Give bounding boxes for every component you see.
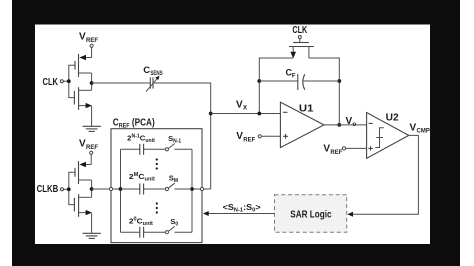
transistor PMOS (CLKB driver) (75, 161, 92, 184)
power V_REF (bottom, CLKB driver) (79, 139, 98, 165)
svg-text:REF: REF (330, 150, 342, 156)
svg-text:U2: U2 (386, 113, 399, 124)
power V_REF (top, CLK driver) (79, 32, 98, 58)
power V_REF (U1 non-inverting) (236, 131, 280, 143)
wire gate stem (CLKB driver) (69, 172, 75, 204)
wire CLK output to C_SENS (92, 82, 151, 84)
svg-text:V: V (236, 100, 243, 111)
ellipsis dots (rows 2-3) (156, 202, 158, 213)
SAR Logic block (275, 195, 347, 233)
wire PCA output to V_X (192, 188, 211, 190)
svg-text:V: V (79, 139, 86, 150)
capacitor C_F (259, 68, 339, 90)
switch S_(N-1) (row 1) (165, 134, 192, 151)
wire V_X to U1 inverting input (211, 113, 281, 115)
wire U2 output to SAR Logic (347, 135, 418, 216)
svg-text:X: X (243, 105, 247, 111)
wire right bus (PCA) (190, 149, 194, 232)
svg-text:REF: REF (243, 137, 255, 143)
svg-text:F: F (292, 73, 296, 79)
node output (CLK driver) (90, 73, 94, 90)
svg-text:CLK: CLK (43, 77, 59, 88)
svg-text:REF: REF (86, 145, 98, 151)
op-amp U1 (280, 102, 324, 148)
wire left bus (PCA) (119, 149, 123, 232)
node PCA left terminal (109, 187, 112, 190)
ground (CLK driver) (83, 106, 101, 132)
svg-text:REF: REF (86, 38, 98, 44)
wire CLKB output to PCA (92, 188, 121, 190)
wire feedback right branch (309, 58, 341, 127)
wire SAR Logic to PCA switches (203, 211, 275, 216)
comparator U2 (367, 113, 409, 159)
switch S_M (row 2) (165, 174, 192, 191)
svg-text:V: V (323, 144, 330, 155)
transistor NMOS (CLK driver) (74, 87, 92, 110)
node PCA right terminal (200, 187, 203, 190)
svg-text:V: V (236, 131, 243, 142)
node output (CLKB driver) (90, 180, 94, 197)
transistor reset switch (CLK) (289, 25, 314, 59)
svg-text:CLKB: CLKB (37, 184, 59, 195)
svg-text:o: o (353, 122, 357, 128)
transistor PMOS (CLK driver) (75, 54, 92, 77)
capacitor 2^(N-1)C_unit (row 1) (121, 134, 166, 155)
svg-text:V: V (410, 122, 417, 133)
svg-text:C: C (143, 65, 150, 76)
wire feedback left branch (257, 58, 293, 115)
ground (CLKB driver) (83, 213, 101, 239)
capacitor 2^M C_unit (row 2) (121, 172, 166, 195)
wire V_o (U1 output to U2) (324, 116, 367, 128)
wire C_SENS to node V_X (153, 83, 213, 189)
svg-text:V: V (79, 32, 86, 43)
transistor NMOS (CLKB driver) (74, 194, 92, 217)
bus label S_(N-1):S_0 (223, 202, 261, 214)
svg-text:SAR Logic: SAR Logic (290, 209, 331, 221)
svg-text:U1: U1 (299, 104, 314, 115)
capacitor 2^0 C_unit (row 3) (121, 217, 166, 238)
capacitor C_SENS (variable) (143, 65, 163, 92)
switch S_0 (row 3) (165, 217, 192, 234)
ellipsis dots (rows 1-2) (156, 158, 158, 169)
node V_X (236, 100, 247, 112)
node V_CMP (410, 122, 430, 134)
node CLKB input (37, 184, 71, 195)
power V_REF (U2 non-inverting) (323, 144, 366, 156)
capacitor block C_REF (PCA) box (111, 118, 202, 243)
svg-text:CLK: CLK (292, 25, 307, 36)
svg-text:SENS: SENS (150, 70, 163, 77)
wire gate stem (CLK driver) (69, 65, 75, 97)
svg-text:CMP: CMP (417, 128, 430, 134)
svg-text:V: V (346, 116, 353, 127)
node CLK input (43, 77, 71, 88)
